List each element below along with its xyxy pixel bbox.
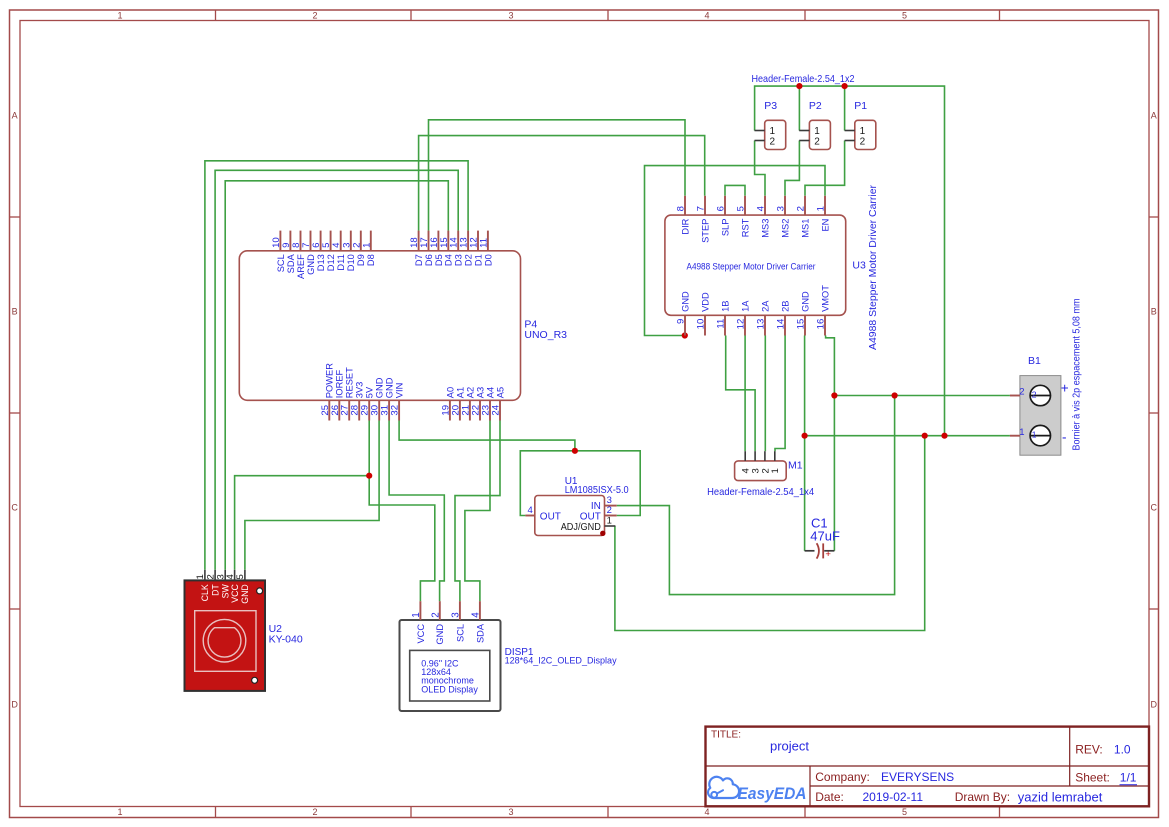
- svg-text:1.0: 1.0: [1114, 742, 1131, 756]
- wire VMOT to C1 and B1 plus: [826, 336, 835, 551]
- svg-text:A3: A3: [475, 387, 485, 398]
- svg-text:4: 4: [528, 505, 533, 516]
- wire D3 to KY-040 DT: [215, 170, 458, 570]
- svg-text:MS3: MS3: [760, 219, 770, 238]
- svg-text:OUT: OUT: [540, 511, 561, 522]
- svg-text:2: 2: [770, 137, 776, 148]
- svg-text:D: D: [11, 699, 18, 709]
- svg-text:P2: P2: [809, 100, 822, 112]
- svg-text:4: 4: [704, 807, 709, 817]
- svg-text:D12: D12: [326, 254, 336, 271]
- svg-text:A2: A2: [465, 387, 475, 398]
- svg-text:2: 2: [860, 137, 866, 148]
- svg-text:Header-Female-2.54_1x4: Header-Female-2.54_1x4: [707, 486, 814, 498]
- svg-text:14: 14: [776, 318, 787, 329]
- svg-text:VMOT: VMOT: [820, 285, 830, 312]
- wire GND rail branch to C1: [804, 436, 806, 551]
- junction dot (574.9,450.8): [572, 448, 578, 454]
- svg-text:LM1085ISX-5.0: LM1085ISX-5.0: [565, 485, 629, 496]
- svg-text:128*64_I2C_OLED_Display: 128*64_I2C_OLED_Display: [505, 656, 617, 666]
- svg-text:SLP: SLP: [720, 219, 730, 237]
- oled display DISP1: [400, 601, 618, 711]
- svg-text:1: 1: [770, 126, 776, 137]
- header P1: [845, 100, 876, 150]
- terminal block B1 Bornier: [1010, 299, 1083, 456]
- svg-text:47uF: 47uF: [810, 529, 840, 544]
- svg-text:Date:: Date:: [815, 790, 844, 804]
- svg-text:Header-Female-2.54_1x2: Header-Female-2.54_1x2: [752, 73, 855, 85]
- svg-text:1: 1: [814, 126, 820, 137]
- svg-text:D4: D4: [444, 254, 454, 266]
- svg-text:1: 1: [117, 10, 122, 20]
- svg-text:3: 3: [508, 807, 513, 817]
- svg-text:2: 2: [1019, 387, 1024, 398]
- svg-text:AREF: AREF: [296, 254, 306, 279]
- svg-text:U3: U3: [852, 259, 866, 271]
- svg-text:15: 15: [796, 319, 807, 330]
- svg-text:MS2: MS2: [780, 219, 790, 238]
- wire VIN to U1 OUT rail: [399, 421, 575, 451]
- svg-text:ADJ/GND: ADJ/GND: [561, 522, 601, 533]
- svg-text:A: A: [12, 110, 18, 120]
- svg-text:D11: D11: [336, 254, 346, 270]
- rotary encoder U2 KY-040: [185, 570, 303, 691]
- svg-text:D9: D9: [356, 254, 366, 266]
- svg-text:1: 1: [1032, 430, 1037, 440]
- wire GND pin30 to KY-040 GND: [245, 421, 379, 570]
- svg-text:VCC: VCC: [416, 624, 426, 644]
- svg-text:B1: B1: [1028, 355, 1041, 367]
- svg-text:1A: 1A: [740, 300, 750, 312]
- svg-text:P3: P3: [764, 100, 777, 112]
- svg-text:1: 1: [770, 468, 781, 473]
- wire A4 to OLED SDA: [465, 421, 490, 602]
- svg-text:11: 11: [716, 319, 727, 329]
- svg-text:EVERYSENS: EVERYSENS: [881, 770, 954, 784]
- svg-text:-: -: [1062, 430, 1067, 445]
- svg-text:GND: GND: [375, 377, 385, 398]
- svg-text:GND: GND: [800, 291, 810, 312]
- svg-text:3: 3: [508, 10, 513, 20]
- svg-text:2A: 2A: [760, 300, 770, 312]
- svg-text:A1: A1: [455, 387, 465, 398]
- junction dot (894.6,395.5): [892, 392, 898, 398]
- svg-text:IOREF: IOREF: [335, 369, 345, 398]
- svg-text:yazid lemrabet: yazid lemrabet: [1018, 790, 1103, 805]
- arduino module P4 UNO_R3: [239, 231, 567, 421]
- svg-text:4: 4: [704, 10, 709, 20]
- svg-text:12: 12: [736, 319, 747, 330]
- svg-text:TITLE:: TITLE:: [711, 730, 741, 741]
- svg-text:D6: D6: [424, 254, 434, 266]
- junction dot (369.2,475.7): [366, 473, 372, 479]
- svg-text:SDA: SDA: [286, 253, 296, 273]
- wire D7 to STEP: [419, 136, 705, 231]
- svg-text:MS1: MS1: [800, 219, 810, 238]
- svg-text:EN: EN: [820, 219, 830, 232]
- svg-text:CLK: CLK: [200, 584, 210, 601]
- svg-text:+: +: [825, 549, 831, 560]
- svg-text:Sheet:: Sheet:: [1075, 770, 1110, 784]
- svg-text:1/1: 1/1: [1120, 771, 1137, 785]
- svg-text:5: 5: [235, 574, 246, 579]
- svg-text:A: A: [1151, 110, 1157, 120]
- wire A5 to OLED SCL: [455, 421, 500, 602]
- header P3: [755, 100, 786, 150]
- svg-text:OUT: OUT: [580, 511, 601, 522]
- svg-text:8: 8: [676, 206, 687, 211]
- wire D6 to DIR: [429, 120, 686, 231]
- wire GND pin31 to OLED GND: [389, 421, 444, 602]
- svg-text:4: 4: [756, 205, 767, 211]
- svg-text:GND: GND: [680, 291, 690, 312]
- svg-text:D3: D3: [454, 254, 464, 266]
- junction dot (924.7,435.7): [922, 433, 928, 439]
- svg-text:C: C: [11, 502, 18, 512]
- wire D2 to KY-040 CLK: [205, 161, 468, 570]
- svg-text:D1: D1: [473, 254, 483, 266]
- svg-text:5: 5: [902, 10, 907, 20]
- svg-text:5V: 5V: [365, 386, 375, 398]
- svg-text:11: 11: [478, 238, 489, 248]
- svg-text:UNO_R3: UNO_R3: [524, 329, 567, 341]
- svg-text:2: 2: [312, 10, 317, 20]
- svg-text:1: 1: [607, 516, 612, 527]
- svg-text:1: 1: [361, 243, 372, 248]
- regulator U1 LM1085ISX-5.0: [525, 476, 629, 536]
- svg-text:SCL: SCL: [276, 254, 286, 272]
- svg-text:POWER: POWER: [325, 363, 335, 398]
- svg-text:B: B: [1151, 306, 1157, 316]
- svg-text:A4988 Stepper Motor Driver Car: A4988 Stepper Motor Driver Carrier: [868, 184, 879, 350]
- wire B1 plus rail: [834, 395, 1010, 397]
- svg-text:D: D: [1151, 699, 1158, 709]
- header P2: [799, 100, 830, 150]
- stepper driver U3 A4988: [665, 184, 879, 350]
- svg-text:D7: D7: [414, 254, 424, 266]
- svg-text:3: 3: [776, 206, 787, 211]
- capacitor C1 47uF: [805, 516, 840, 560]
- svg-text:1: 1: [816, 206, 827, 211]
- svg-text:D8: D8: [366, 254, 376, 266]
- svg-text:B: B: [12, 306, 18, 316]
- junction dot (844.6,86.1): [842, 83, 848, 89]
- wire P1 pin2 to MS1: [805, 141, 845, 196]
- svg-text:REV:: REV:: [1075, 742, 1103, 756]
- title block: [706, 727, 1150, 807]
- svg-text:VCC: VCC: [230, 584, 240, 603]
- svg-text:2: 2: [796, 206, 807, 211]
- svg-text:2: 2: [430, 612, 441, 617]
- wire 5V to OLED VCC: [369, 421, 435, 602]
- svg-text:2: 2: [607, 505, 612, 516]
- svg-text:4: 4: [470, 612, 481, 618]
- svg-text:3V3: 3V3: [355, 382, 365, 399]
- wire 1A to M1 pin4: [744, 336, 746, 452]
- svg-text:1: 1: [411, 612, 422, 617]
- svg-text:2: 2: [1032, 389, 1037, 399]
- svg-text:2: 2: [814, 137, 820, 148]
- svg-text:C: C: [1151, 502, 1158, 512]
- svg-text:2: 2: [312, 807, 317, 817]
- svg-text:10: 10: [696, 319, 707, 330]
- wire net header pin1 rail to B1 minus: [755, 86, 945, 436]
- junction dot (834.4,395.5): [831, 392, 837, 398]
- junction dot (799.4,86.1): [796, 83, 802, 89]
- svg-text:P1: P1: [854, 100, 867, 112]
- svg-text:D2: D2: [464, 254, 474, 266]
- svg-text:A0: A0: [445, 387, 455, 398]
- svg-text:A5: A5: [495, 387, 505, 398]
- svg-text:9: 9: [676, 319, 687, 324]
- svg-text:RESET: RESET: [345, 367, 355, 398]
- svg-text:SDA: SDA: [475, 623, 485, 643]
- svg-text:5: 5: [736, 206, 747, 211]
- svg-text:GND: GND: [435, 624, 445, 645]
- svg-text:VDD: VDD: [700, 292, 710, 312]
- svg-text:2B: 2B: [780, 301, 790, 312]
- wire P2 pin1 drop: [798, 86, 800, 130]
- wire U1 IN to B1 plus rail: [617, 396, 895, 595]
- svg-text:3: 3: [450, 612, 461, 618]
- svg-text:24: 24: [491, 404, 502, 415]
- svg-text:Company:: Company:: [815, 770, 870, 784]
- svg-text:GND: GND: [306, 254, 316, 275]
- svg-text:project: project: [770, 739, 809, 754]
- svg-text:1: 1: [860, 126, 866, 137]
- svg-text:7: 7: [696, 206, 707, 211]
- svg-text:1B: 1B: [720, 301, 730, 312]
- svg-text:STEP: STEP: [700, 219, 710, 243]
- svg-text:M1: M1: [788, 459, 803, 471]
- svg-text:EasyEDA: EasyEDA: [738, 785, 807, 803]
- svg-text:D5: D5: [434, 254, 444, 266]
- svg-text:VIN: VIN: [395, 383, 405, 399]
- svg-text:DIR: DIR: [680, 218, 690, 234]
- svg-text:OLED Display: OLED Display: [421, 684, 478, 694]
- wire GND rail pin15 to B1 minus: [805, 336, 1010, 436]
- junction dot (804.6,435.7): [802, 433, 808, 439]
- wire 1B to M1 pin3: [726, 336, 755, 452]
- svg-text:RST: RST: [740, 218, 750, 237]
- svg-text:2019-02-11: 2019-02-11: [863, 790, 924, 804]
- svg-text:16: 16: [816, 319, 827, 330]
- svg-text:32: 32: [390, 405, 401, 416]
- wire 2B to M1 pin1: [775, 336, 785, 452]
- svg-text:1: 1: [1019, 427, 1024, 438]
- wire 5V branch to KY-040 VCC: [235, 476, 370, 570]
- EasyEDA logo: [708, 777, 806, 803]
- wire U1 ADJ/GND to GND rail: [615, 436, 925, 631]
- svg-text:GND: GND: [385, 377, 395, 398]
- svg-text:D13: D13: [316, 254, 326, 271]
- svg-text:1: 1: [117, 807, 122, 817]
- wire SLP to RST jumper: [725, 185, 745, 195]
- svg-text:DT: DT: [210, 584, 220, 596]
- svg-text:A4: A4: [485, 387, 495, 398]
- wire D4 to KY-040 SW: [225, 181, 448, 570]
- junction dot (944.5,435.7): [941, 433, 947, 439]
- svg-text:Drawn By:: Drawn By:: [955, 790, 1010, 804]
- wire P3 pin2 to MS3: [755, 141, 765, 196]
- svg-text:5: 5: [902, 807, 907, 817]
- svg-text:6: 6: [716, 206, 727, 211]
- wire P2 pin2 to MS2: [785, 141, 799, 196]
- svg-text:A4988 Stepper Motor Driver Car: A4988 Stepper Motor Driver Carrier: [687, 262, 816, 272]
- svg-text:D0: D0: [483, 254, 493, 266]
- header M1 Header-Female-2.54_1x4: [707, 451, 814, 498]
- svg-text:SCL: SCL: [455, 624, 465, 642]
- svg-text:13: 13: [756, 319, 767, 330]
- wire U1 OUT rail pins 4 and 2: [520, 451, 640, 516]
- wire P1 pin1 drop: [844, 86, 846, 130]
- junction dot (684.8,335.5): [682, 332, 688, 338]
- svg-text:GND: GND: [240, 584, 250, 604]
- svg-text:KY-040: KY-040: [269, 634, 303, 646]
- wire 2A to M1 pin2: [764, 336, 766, 452]
- wire EN to GND pin9: [645, 166, 826, 336]
- svg-text:D10: D10: [346, 254, 356, 271]
- svg-text:Bornier à vis 2p espacement 5,: Bornier à vis 2p espacement 5,08 mm: [1072, 299, 1083, 451]
- svg-text:+: +: [1061, 381, 1069, 396]
